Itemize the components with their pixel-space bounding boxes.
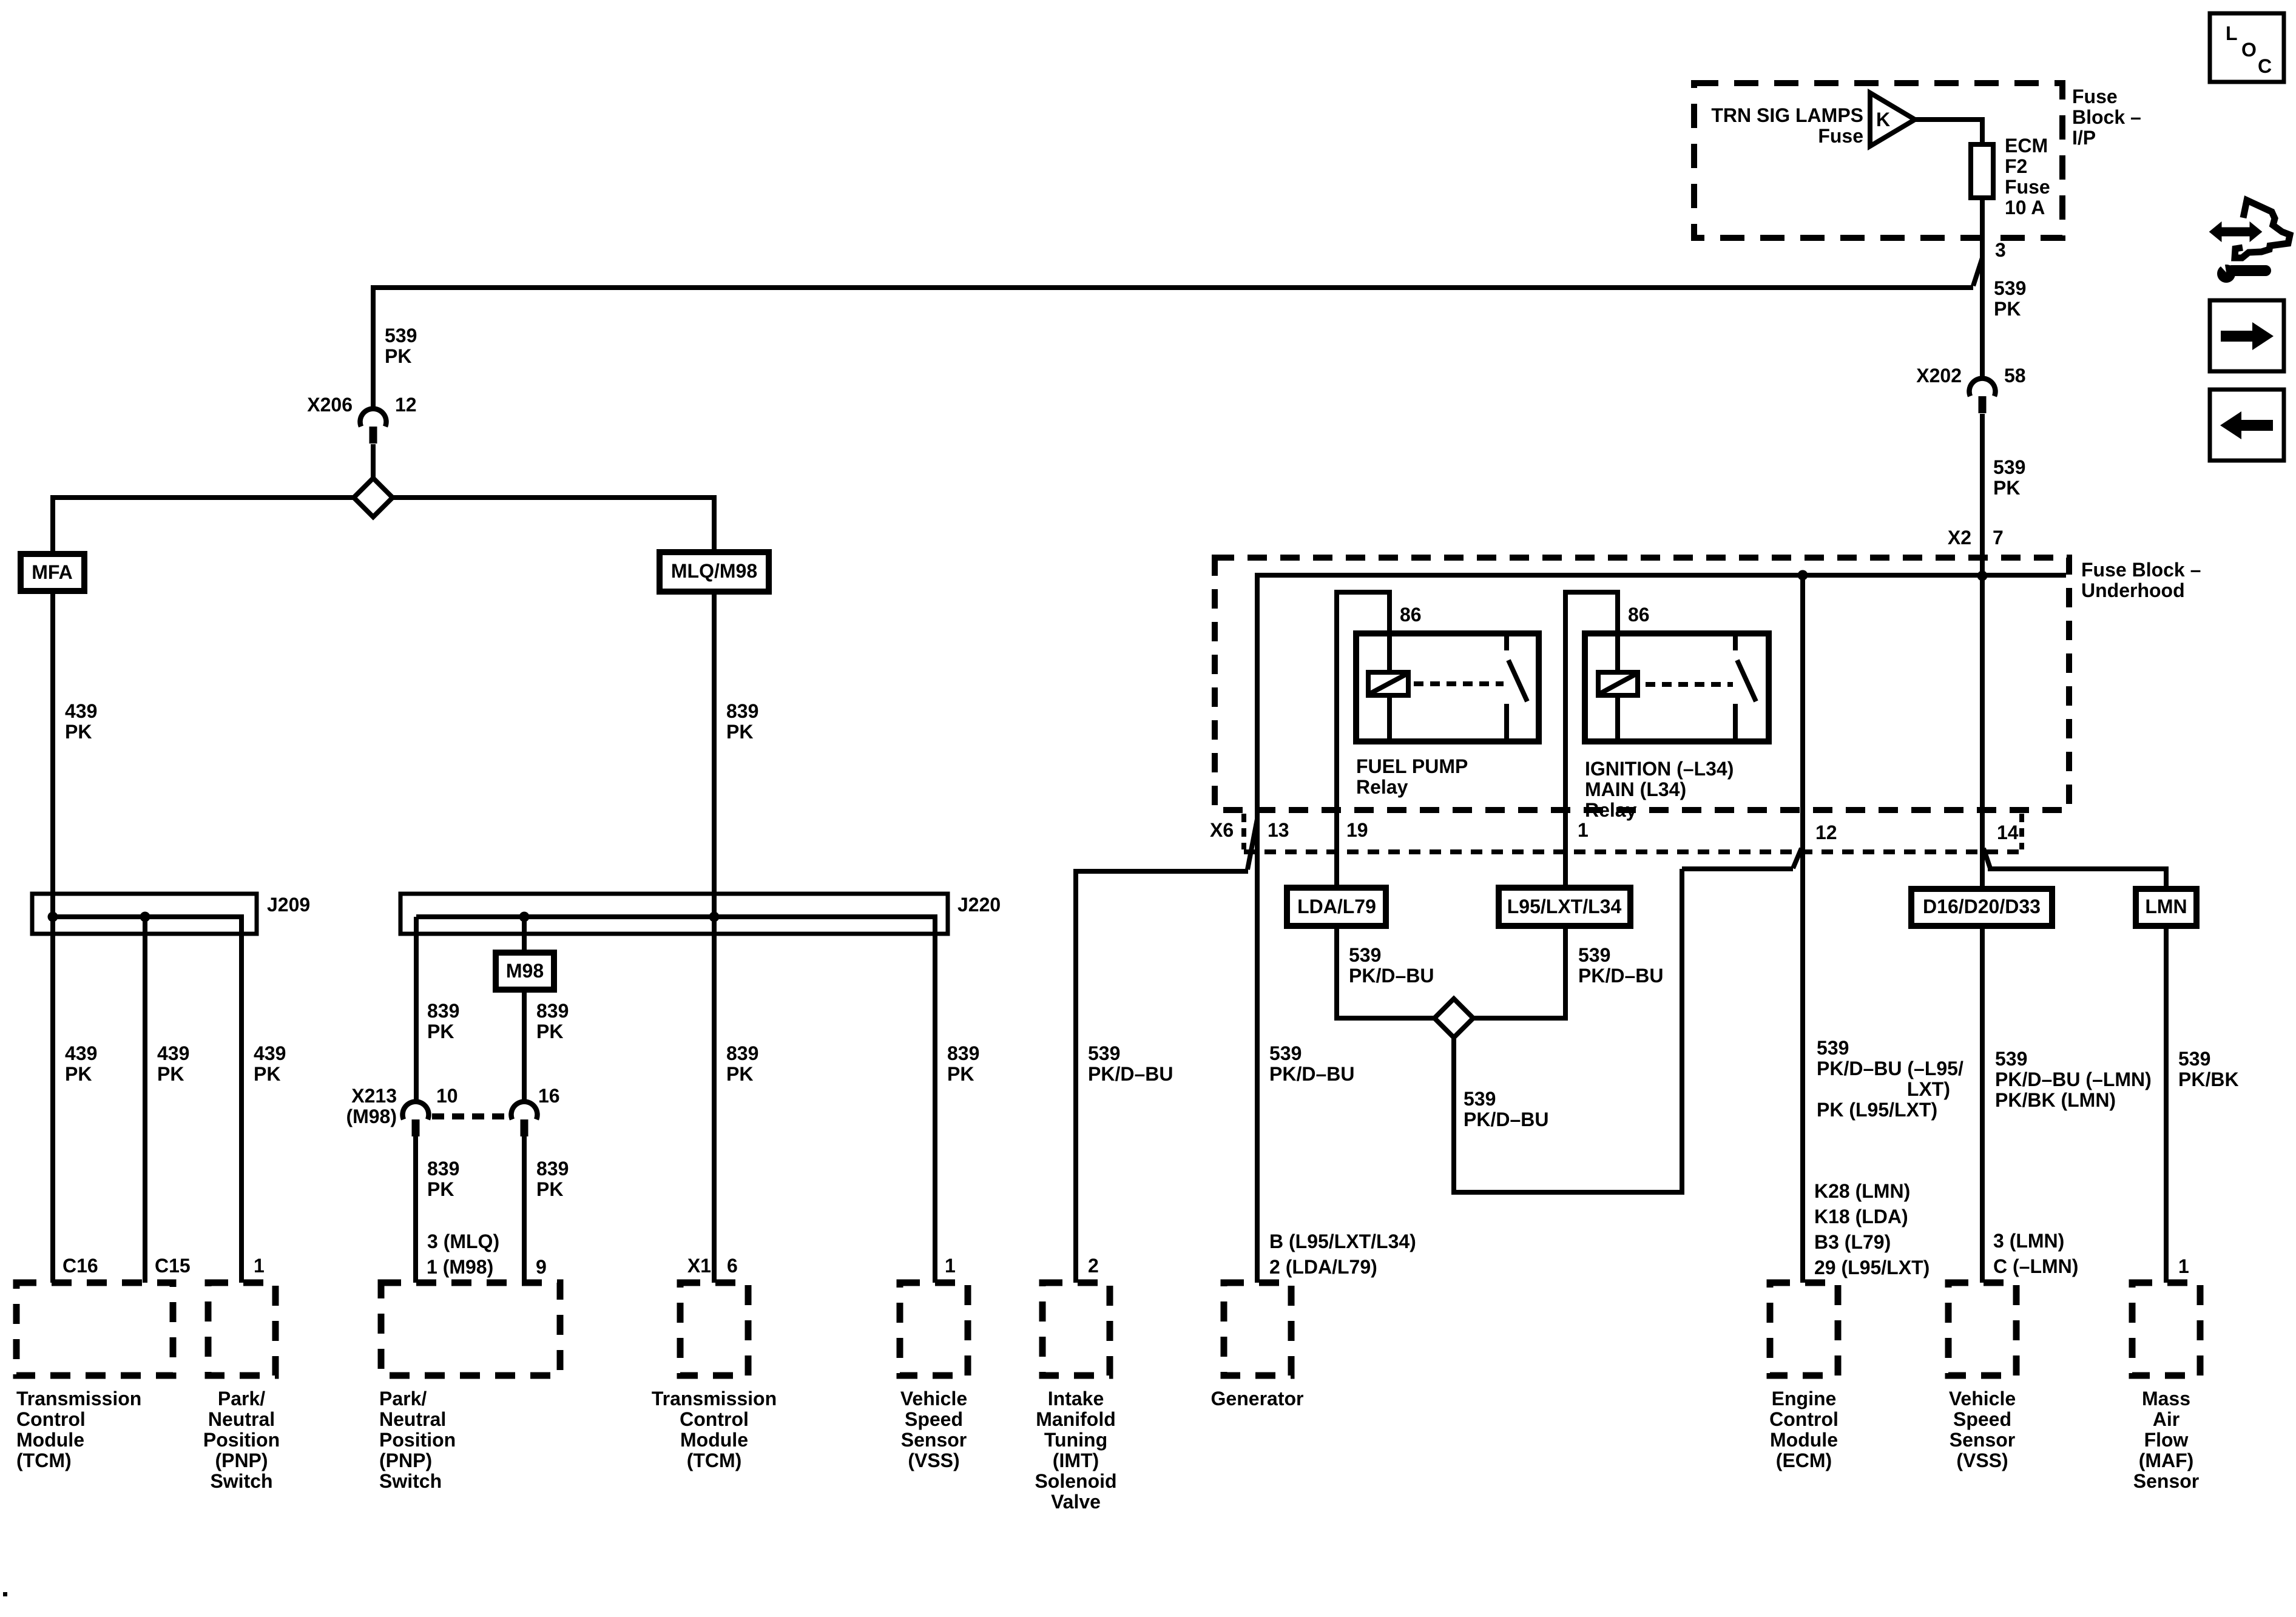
wire LMN to MAF: [2164, 926, 2169, 1283]
svg-text:Position: Position: [379, 1429, 456, 1451]
svg-text:PK/D–BU: PK/D–BU: [1269, 1063, 1354, 1085]
label 839 PK VSS wire: [947, 1042, 979, 1085]
svg-text:539: 539: [1464, 1088, 1496, 1110]
label Fuse Block - I/P: [2072, 86, 2141, 149]
svg-text:K18 (LDA): K18 (LDA): [1814, 1206, 1908, 1227]
svg-text:X202: X202: [1916, 365, 1962, 387]
svg-text:J220: J220: [957, 894, 1001, 916]
junction dot J209 left: [48, 912, 58, 922]
svg-text:Sensor: Sensor: [901, 1429, 967, 1451]
connector X202 pin 58: [1969, 379, 1995, 413]
svg-text:PK: PK: [65, 1063, 92, 1085]
svg-text:Switch: Switch: [379, 1470, 442, 1492]
svg-text:B3 (L79): B3 (L79): [1814, 1231, 1891, 1253]
svg-text:Speed: Speed: [1953, 1408, 2011, 1430]
svg-text:X206: X206: [307, 394, 353, 416]
svg-text:13: 13: [1268, 819, 1289, 841]
svg-text:539: 539: [1994, 277, 2026, 299]
svg-text:IGNITION (–L34): IGNITION (–L34): [1585, 758, 1734, 780]
svg-text:LMN: LMN: [2145, 896, 2187, 917]
wire splice to MLQ/M98: [393, 495, 714, 552]
splice pack J209: [32, 894, 257, 934]
svg-text:58: 58: [2004, 365, 2026, 387]
svg-text:1 (M98): 1 (M98): [427, 1256, 493, 1278]
component box TCM 2: [680, 1283, 748, 1376]
label 539 PK/D-BU below splice: [1464, 1088, 1548, 1130]
svg-text:19: 19: [1346, 819, 1368, 841]
wire generator drop: [1255, 573, 1260, 1283]
svg-text:J209: J209: [267, 894, 310, 916]
wire tap diagonal to horizontal run: [1973, 258, 1982, 286]
splice diamond S1: [354, 478, 393, 517]
label FUEL PUMP Relay: [1356, 755, 1468, 798]
label 539 PK upper right: [1994, 277, 2026, 320]
svg-text:FUEL PUMP: FUEL PUMP: [1356, 755, 1468, 777]
svg-text:ECM: ECM: [2005, 135, 2048, 157]
icon back arrow box: [2210, 390, 2284, 461]
svg-text:839: 839: [536, 1000, 569, 1022]
svg-text:PK/D–BU: PK/D–BU: [1578, 965, 1663, 987]
wire X202 to X2: [1980, 414, 1985, 889]
svg-text:Mass: Mass: [2142, 1388, 2190, 1409]
pin B 2 generator: [1269, 1230, 1416, 1278]
svg-text:10 A: 10 A: [2005, 197, 2045, 218]
label Vehicle Speed Sensor (VSS) 2: [1949, 1388, 2016, 1471]
label Vehicle Speed Sensor (VSS): [900, 1388, 967, 1471]
svg-text:12: 12: [395, 394, 417, 416]
pin X1 6: [687, 1255, 738, 1277]
relay box FUEL PUMP: [1356, 633, 1539, 741]
component box MAF: [2132, 1283, 2200, 1376]
junction dot ignition feed: [1798, 570, 1808, 581]
svg-text:(VSS): (VSS): [1956, 1450, 2008, 1471]
svg-text:Valve: Valve: [1051, 1491, 1101, 1513]
Fuse Block - Underhood dashed enclosure: [1215, 558, 2069, 810]
label 839 PK right: [536, 1000, 569, 1042]
svg-text:16: 16: [538, 1085, 560, 1107]
svg-text:(ECM): (ECM): [1776, 1450, 1832, 1471]
connector box L95/LXT/L34: [1499, 888, 1630, 926]
wire fuel relay 86 staple: [1334, 592, 1392, 888]
wire X213-10 to PNP: [413, 1133, 418, 1283]
connector box M98: [496, 953, 554, 990]
label Park/Neutral Position (PNP) Switch: [203, 1388, 280, 1492]
svg-text:C (–LMN): C (–LMN): [1993, 1255, 2078, 1277]
label 539 PK/D-BU under L95: [1578, 944, 1663, 987]
label 539 PK mid right: [1993, 456, 2025, 499]
tap diagonal pin 14: [1984, 848, 1990, 868]
svg-text:2 (LDA/L79): 2 (LDA/L79): [1269, 1256, 1377, 1278]
svg-text:K28 (LMN): K28 (LMN): [1814, 1180, 1910, 1202]
svg-text:Control: Control: [1769, 1408, 1838, 1430]
svg-text:Air: Air: [2153, 1408, 2180, 1430]
svg-text:6: 6: [727, 1255, 738, 1277]
svg-text:Flow: Flow: [2144, 1429, 2189, 1451]
ignition relay coil: [1598, 672, 1638, 741]
label 839 PK left: [427, 1000, 459, 1042]
svg-text:539: 539: [2178, 1048, 2210, 1070]
svg-text:Neutral: Neutral: [379, 1408, 446, 1430]
wire long horizontal 539 PK run: [371, 285, 1973, 290]
svg-text:Control: Control: [680, 1408, 749, 1430]
splice diamond S2: [1434, 999, 1473, 1038]
label IGNITION (-L34) MAIN (L34) Relay: [1585, 758, 1734, 821]
fuel relay switch: [1507, 633, 1527, 741]
svg-text:(PNP): (PNP): [379, 1450, 432, 1471]
svg-text:1: 1: [1578, 819, 1589, 841]
component box PNP switch 1: [208, 1283, 275, 1376]
component box VSS 1: [900, 1283, 968, 1376]
wire X213-16 to PNP: [522, 1133, 527, 1283]
X6 right edge dashes: [2019, 814, 2024, 849]
svg-text:539: 539: [1993, 456, 2025, 478]
label Transmission Control Module (TCM): [16, 1388, 141, 1471]
svg-text:Solenoid: Solenoid: [1035, 1470, 1116, 1492]
wire ignition relay 86 staple: [1563, 592, 1620, 888]
label 539 PK/D-BU (-LMN) PK/BK (LMN): [1995, 1048, 2152, 1111]
connector X206 pin 12: [360, 409, 387, 444]
wire splice to X6 pin 12: [1451, 869, 1793, 1195]
svg-text:MLQ/M98: MLQ/M98: [671, 560, 757, 582]
label 539 PK/D-BU generator: [1269, 1042, 1354, 1085]
svg-text:PK/D–BU: PK/D–BU: [1088, 1063, 1173, 1085]
svg-text:PK: PK: [254, 1063, 280, 1085]
pin 3 C VSS2: [1993, 1230, 2078, 1277]
tap diagonal pin 12: [1793, 848, 1801, 868]
svg-text:839: 839: [427, 1158, 459, 1180]
wire D16 to VSS2: [1980, 926, 1985, 1283]
svg-text:539: 539: [1995, 1048, 2027, 1070]
pin 3 (MLQ) 1 (M98): [427, 1230, 499, 1278]
svg-text:MAIN (L34): MAIN (L34): [1585, 778, 1686, 800]
wire IMT horizontal from X6 pin13: [1076, 869, 1248, 1283]
svg-text:D16/D20/D33: D16/D20/D33: [1923, 896, 2041, 917]
svg-text:X213: X213: [351, 1085, 397, 1107]
connector box LMN: [2136, 889, 2196, 926]
svg-text:Park/: Park/: [379, 1388, 427, 1409]
junction dot J220 TCM tap: [709, 912, 720, 922]
svg-text:Transmission: Transmission: [652, 1388, 777, 1409]
label 539 PK top left: [385, 325, 417, 367]
svg-text:839: 839: [427, 1000, 459, 1022]
svg-text:Switch: Switch: [210, 1470, 272, 1492]
label 839 PK TCM wire: [726, 1042, 758, 1085]
label Park/Neutral Position (PNP) Switch 2: [379, 1388, 456, 1492]
svg-text:3 (MLQ): 3 (MLQ): [427, 1230, 499, 1252]
svg-text:C16: C16: [62, 1255, 98, 1277]
svg-text:439: 439: [157, 1042, 189, 1064]
svg-text:3 (LMN): 3 (LMN): [1993, 1230, 2064, 1252]
connector X213 pin 10: [403, 1102, 429, 1136]
fuel relay coil: [1368, 672, 1408, 741]
svg-text:9: 9: [536, 1256, 547, 1278]
svg-text:(MAF): (MAF): [2139, 1450, 2194, 1471]
label Transmission Control Module (TCM) 2: [652, 1388, 777, 1471]
label Engine Control Module (ECM): [1769, 1388, 1838, 1471]
fuse cavity triangle K: [1870, 93, 1915, 146]
svg-text:F2: F2: [2005, 155, 2027, 177]
label 839 PK MLQ wire: [726, 700, 758, 743]
svg-text:Fuse: Fuse: [2072, 86, 2118, 107]
svg-text:3: 3: [1995, 239, 2006, 261]
svg-text:439: 439: [254, 1042, 286, 1064]
svg-text:PK: PK: [427, 1021, 454, 1042]
svg-text:PK/BK: PK/BK: [2178, 1068, 2239, 1090]
svg-text:B (L95/LXT/L34): B (L95/LXT/L34): [1269, 1230, 1416, 1252]
label X213 (M98): [346, 1085, 397, 1127]
svg-text:PK: PK: [536, 1178, 563, 1200]
svg-text:Fuse: Fuse: [2005, 176, 2050, 198]
wire X206 to splice: [371, 444, 376, 479]
svg-text:Manifold: Manifold: [1036, 1408, 1116, 1430]
label 839 PK below16: [536, 1158, 569, 1200]
svg-text:Vehicle: Vehicle: [900, 1388, 967, 1409]
svg-text:PK: PK: [536, 1021, 563, 1042]
svg-text:(IMT): (IMT): [1053, 1450, 1099, 1471]
svg-text:Relay: Relay: [1356, 776, 1408, 798]
svg-text:PK: PK: [1994, 298, 2021, 320]
svg-text:Transmission: Transmission: [16, 1388, 141, 1409]
svg-text:Engine: Engine: [1772, 1388, 1837, 1409]
wire J220 left to X213 pin10: [414, 917, 419, 1104]
svg-text:PK (L95/LXT): PK (L95/LXT): [1817, 1099, 1937, 1121]
junction dot J220 M98 tap: [519, 912, 530, 922]
svg-text:PK/D–BU: PK/D–BU: [1349, 965, 1434, 987]
svg-text:839: 839: [726, 1042, 758, 1064]
svg-text:M98: M98: [506, 960, 544, 982]
svg-text:1: 1: [2178, 1255, 2189, 1277]
fuse ECM F2 10A: [1971, 144, 1993, 198]
svg-text:839: 839: [726, 700, 758, 722]
junction dot J209 mid: [140, 912, 150, 922]
svg-text:PK: PK: [385, 345, 411, 367]
label 539 PK/D-BU IMT: [1088, 1042, 1173, 1085]
wire J209 to TCM C16: [50, 917, 55, 1283]
connector box LDA/L79: [1287, 888, 1386, 926]
tap diagonal pin 13: [1248, 819, 1257, 869]
svg-text:LXT): LXT): [1907, 1078, 1950, 1100]
svg-text:(VSS): (VSS): [908, 1450, 959, 1471]
wire pin14 to LMN: [1988, 866, 2166, 889]
svg-text:839: 839: [947, 1042, 979, 1064]
wire ECM drop: [1800, 575, 1805, 1283]
svg-text:PK: PK: [427, 1178, 454, 1200]
component box TCM 1: [16, 1283, 173, 1376]
wire LDA to splice: [1337, 926, 1434, 1021]
svg-text:TRN SIG LAMPS: TRN SIG LAMPS: [1711, 104, 1863, 126]
X6 left edge dashes: [1241, 814, 1246, 849]
svg-text:Generator: Generator: [1211, 1388, 1304, 1409]
connector box D16/D20/D33: [1911, 889, 2052, 926]
svg-text:Tuning: Tuning: [1044, 1429, 1107, 1451]
ignition relay linkage dashed: [1646, 682, 1733, 687]
svg-text:C: C: [2258, 55, 2272, 77]
svg-text:86: 86: [1400, 604, 1422, 626]
svg-text:PK: PK: [726, 1063, 753, 1085]
svg-text:1: 1: [945, 1255, 956, 1277]
svg-text:PK/D–BU: PK/D–BU: [1464, 1109, 1548, 1130]
wire triangle to fuse: [1915, 117, 1982, 144]
wire J220 right to VSS: [933, 914, 937, 1283]
labels 439 PK x3: [65, 1042, 97, 1085]
wire bus inside underhood: [1257, 573, 2066, 578]
wire J209 to TCM C15: [143, 917, 147, 1283]
svg-text:10: 10: [436, 1085, 458, 1107]
svg-text:Sensor: Sensor: [1950, 1429, 2015, 1451]
Fuse Block - I/P dashed enclosure: [1694, 83, 2062, 238]
svg-text:PK/D–BU (–LMN): PK/D–BU (–LMN): [1995, 1068, 2152, 1090]
svg-text:Control: Control: [16, 1408, 86, 1430]
icon service/repair glyph: [2210, 200, 2290, 283]
svg-text:(PNP): (PNP): [215, 1450, 268, 1471]
svg-text:C15: C15: [155, 1255, 191, 1277]
pins K28 K18 B3 29: [1814, 1180, 1930, 1278]
wire J220 to M98: [522, 917, 527, 953]
svg-text:539: 539: [1578, 944, 1610, 966]
svg-text:539: 539: [1349, 944, 1381, 966]
svg-text:439: 439: [65, 700, 97, 722]
svg-text:Module: Module: [1770, 1429, 1838, 1451]
svg-text:L: L: [2226, 22, 2238, 44]
svg-text:L95/LXT/L34: L95/LXT/L34: [1507, 896, 1622, 917]
svg-text:X1: X1: [687, 1255, 711, 1277]
component box Generator: [1224, 1283, 1291, 1376]
component box IMT: [1042, 1283, 1110, 1376]
junction dot X2 feed: [1977, 571, 1988, 581]
svg-text:Position: Position: [203, 1429, 280, 1451]
svg-text:439: 439: [65, 1042, 97, 1064]
svg-text:Module: Module: [680, 1429, 748, 1451]
svg-text:1: 1: [254, 1255, 265, 1277]
svg-text:MFA: MFA: [32, 561, 73, 583]
connector X213 pin 16: [512, 1102, 538, 1136]
svg-text:PK: PK: [65, 721, 92, 743]
svg-text:PK: PK: [157, 1063, 184, 1085]
svg-text:Neutral: Neutral: [208, 1408, 275, 1430]
ignition relay switch: [1735, 633, 1756, 741]
wire M98 to X213 pin16: [522, 990, 527, 1104]
svg-text:PK/D–BU (–L95/: PK/D–BU (–L95/: [1817, 1058, 1963, 1079]
label 839 PK below10: [427, 1158, 459, 1200]
dashed connector link X213: [432, 1113, 508, 1119]
svg-text:X6: X6: [1210, 819, 1234, 841]
connector box MLQ/M98: [660, 552, 769, 592]
relay box IGNITION MAIN: [1585, 633, 1769, 741]
svg-text:Underhood: Underhood: [2081, 579, 2185, 601]
icon LOC legend box: [2210, 13, 2284, 82]
svg-text:539: 539: [1817, 1037, 1849, 1059]
svg-text:539: 539: [385, 325, 417, 346]
label Fuse Block - Underhood: [2081, 559, 2201, 601]
svg-text:PK/BK (LMN): PK/BK (LMN): [1995, 1089, 2116, 1111]
label 539 PK/D-BU ECM: [1817, 1037, 1963, 1121]
svg-text:Sensor: Sensor: [2133, 1470, 2199, 1492]
wire L95 to splice: [1473, 926, 1565, 1021]
svg-text:Module: Module: [16, 1429, 84, 1451]
svg-text:29 (L95/LXT): 29 (L95/LXT): [1814, 1257, 1930, 1278]
TRN SIG LAMPS Fuse label: [1711, 104, 1863, 147]
wire splice to MFA: [53, 495, 354, 554]
component box VSS 2: [1948, 1283, 2016, 1376]
label ECM F2 Fuse 10 A: [2005, 135, 2050, 218]
wire MLQ to J220 and TCM: [712, 592, 717, 1283]
svg-text:LDA/L79: LDA/L79: [1297, 896, 1376, 917]
label Intake Manifold Tuning (IMT) Solenoid Valve: [1035, 1388, 1116, 1513]
svg-text:O: O: [2241, 39, 2257, 61]
svg-text:14: 14: [1997, 822, 2019, 843]
svg-text:K: K: [1876, 109, 1890, 130]
svg-text:(TCM): (TCM): [16, 1450, 72, 1471]
svg-text:Fuse: Fuse: [1818, 125, 1863, 147]
svg-text:Park/: Park/: [218, 1388, 265, 1409]
svg-text:I/P: I/P: [2072, 127, 2096, 149]
wire fuse to X202: [1980, 197, 1985, 379]
svg-text:839: 839: [536, 1158, 569, 1180]
splice pack J220: [400, 894, 948, 934]
label 539 PK/BK: [2178, 1048, 2239, 1090]
svg-text:86: 86: [1628, 604, 1650, 626]
component box PNP switch 2: [381, 1283, 560, 1376]
connector row X6 dashed: [1244, 849, 2022, 854]
svg-text:2: 2: [1088, 1255, 1099, 1277]
svg-text:PK: PK: [726, 721, 753, 743]
page artifact dot: [3, 1592, 7, 1596]
svg-text:12: 12: [1815, 822, 1837, 843]
fuel relay linkage dashed: [1414, 681, 1504, 686]
svg-text:PK: PK: [947, 1063, 974, 1085]
icon forward arrow box: [2210, 300, 2284, 371]
svg-text:(M98): (M98): [346, 1106, 397, 1127]
svg-text:Intake: Intake: [1048, 1388, 1104, 1409]
svg-text:Relay: Relay: [1585, 799, 1637, 821]
connector X2 pin 7 labels: [1948, 527, 2004, 549]
svg-text:Vehicle: Vehicle: [1949, 1388, 2016, 1409]
label Mass Air Flow (MAF) Sensor: [2133, 1388, 2199, 1492]
wire MFA to J209: [50, 591, 55, 917]
wire top corner down to X206: [371, 285, 376, 410]
connector box MFA: [21, 554, 84, 591]
component box ECM: [1770, 1283, 1838, 1376]
svg-text:Fuse Block –: Fuse Block –: [2081, 559, 2201, 581]
label 539 PK/D-BU under LDA: [1349, 944, 1434, 987]
svg-text:Speed: Speed: [905, 1408, 963, 1430]
svg-text:539: 539: [1088, 1042, 1120, 1064]
svg-text:7: 7: [1993, 527, 2004, 549]
label 439 PK MFA wire: [65, 700, 97, 743]
svg-text:539: 539: [1269, 1042, 1302, 1064]
wire J209 to PNP 1: [239, 914, 244, 1283]
svg-text:Block –: Block –: [2072, 106, 2141, 128]
svg-text:(TCM): (TCM): [687, 1450, 742, 1471]
svg-text:X2: X2: [1948, 527, 1971, 549]
svg-text:PK: PK: [1993, 477, 2020, 499]
